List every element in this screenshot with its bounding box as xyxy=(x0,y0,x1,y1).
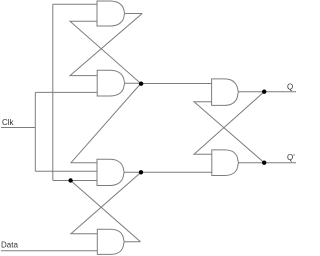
wire U2 output to U3 pin A diagonal xyxy=(71,84,141,163)
wire U2 output to U1 pin B diagonal xyxy=(70,21,141,83)
and-gate U2 xyxy=(97,70,125,96)
wire U4 output feedback vertical xyxy=(52,4,54,180)
and-gate U3 xyxy=(97,159,124,185)
wire Clk input xyxy=(1,127,35,129)
wire U6 output to Q' xyxy=(239,162,296,164)
wire Clk vertical bus xyxy=(34,92,36,171)
and-gate U4 xyxy=(97,229,124,254)
wire U1 output xyxy=(125,13,142,15)
wire U4 output xyxy=(124,241,140,243)
wire Data input to U4 pin B xyxy=(1,250,97,252)
junction dot U2 output node xyxy=(139,82,143,86)
wire U4 output diagonal to feedback node xyxy=(71,181,141,242)
wire U1 output to U2 pin A diagonal xyxy=(70,14,142,76)
wire U2 output to U5 pin A xyxy=(141,83,212,85)
svg-text:Q: Q xyxy=(287,82,293,91)
wire U3 output xyxy=(124,171,141,173)
and-gate U1 xyxy=(97,1,125,26)
and-gate U5 xyxy=(212,79,239,106)
svg-text:Data: Data xyxy=(1,241,18,250)
wire U5 output to U6 pin A diagonal xyxy=(194,92,264,155)
wire U2 output xyxy=(125,82,141,84)
wire U6 output to U5 pin B diagonal xyxy=(194,102,264,163)
junction dot feedback node xyxy=(68,178,72,182)
wire U5 output to Q xyxy=(239,91,297,93)
wire Clk to U2 pin B xyxy=(35,91,97,93)
svg-text:Clk: Clk xyxy=(2,118,15,127)
junction dot U3 output node xyxy=(139,170,143,174)
wire U3 output to U4 pin A diagonal xyxy=(71,172,141,233)
wire Clk to U3 pin B xyxy=(35,170,97,172)
junction dot Q' node xyxy=(262,161,266,165)
and-gate U6 xyxy=(212,150,239,176)
junction dot Q node xyxy=(262,90,266,94)
wire feedback to U3 pin C xyxy=(53,180,97,182)
svg-text:Q': Q' xyxy=(287,153,295,162)
wire U3 output to U6 pin B xyxy=(141,171,212,173)
wire feedback to U1 pin A xyxy=(53,3,97,5)
